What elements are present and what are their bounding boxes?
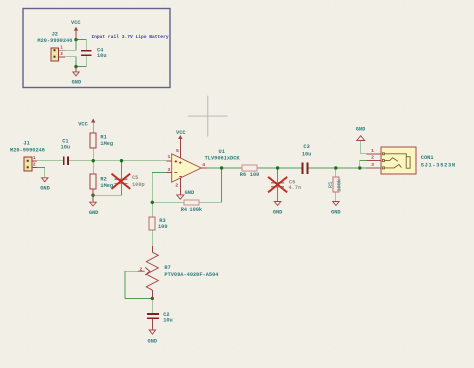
svg-text:100k: 100k [189, 207, 203, 213]
svg-text:GND: GND [185, 190, 195, 196]
svg-text:10u: 10u [302, 152, 312, 158]
svg-text:SJ1-3523N: SJ1-3523N [421, 162, 456, 168]
svg-text:R4: R4 [181, 207, 188, 213]
svg-text:GND: GND [72, 79, 82, 85]
svg-text:10u: 10u [97, 53, 107, 59]
svg-text:100k: 100k [336, 179, 342, 192]
svg-text:GND: GND [89, 210, 99, 216]
svg-text:4.7n: 4.7n [289, 185, 302, 191]
svg-text:100: 100 [250, 172, 260, 178]
svg-text:J1: J1 [23, 141, 29, 147]
svg-text:3: 3 [371, 162, 374, 168]
svg-text:GND: GND [356, 127, 366, 133]
svg-text:VCC: VCC [71, 20, 81, 26]
svg-text:C5: C5 [132, 175, 138, 181]
svg-text:J2: J2 [52, 31, 58, 37]
svg-text:R2: R2 [100, 177, 106, 183]
svg-text:C3: C3 [303, 144, 309, 150]
svg-text:1Meg: 1Meg [100, 141, 113, 147]
svg-text:3: 3 [168, 167, 171, 173]
svg-text:Input rail 3.7V Lipo Battery: Input rail 3.7V Lipo Battery [91, 34, 168, 40]
svg-text:GND: GND [273, 210, 283, 216]
svg-text:1: 1 [371, 148, 374, 154]
svg-text:10u: 10u [163, 317, 173, 323]
svg-text:M20-9990246: M20-9990246 [10, 147, 45, 153]
svg-text:VCC: VCC [176, 130, 186, 136]
svg-text:10u: 10u [61, 144, 71, 150]
svg-text:R7: R7 [164, 265, 170, 271]
svg-text:4: 4 [202, 162, 205, 168]
svg-text:CON1: CON1 [421, 155, 434, 161]
svg-text:GND: GND [148, 338, 158, 344]
svg-text:2: 2 [371, 155, 374, 161]
svg-text:100: 100 [158, 224, 168, 230]
svg-text:U1: U1 [219, 149, 225, 155]
svg-text:1: 1 [168, 154, 171, 160]
svg-text:GND: GND [331, 210, 341, 216]
svg-text:100p: 100p [132, 182, 145, 188]
svg-text:2: 2 [175, 183, 178, 189]
svg-text:VCC: VCC [78, 121, 88, 127]
svg-text:R5: R5 [328, 182, 334, 188]
svg-text:2: 2 [139, 267, 142, 273]
svg-text:R1: R1 [100, 135, 106, 141]
svg-text:5: 5 [176, 148, 179, 154]
svg-text:M20-9990246: M20-9990246 [37, 38, 72, 44]
svg-text:PTV09A-4020F-A504: PTV09A-4020F-A504 [164, 272, 219, 278]
svg-text:TLV9061xDCK: TLV9061xDCK [205, 155, 241, 161]
svg-text:GND: GND [40, 186, 50, 192]
svg-text:R6: R6 [240, 172, 246, 178]
svg-text:1Meg: 1Meg [100, 183, 113, 189]
